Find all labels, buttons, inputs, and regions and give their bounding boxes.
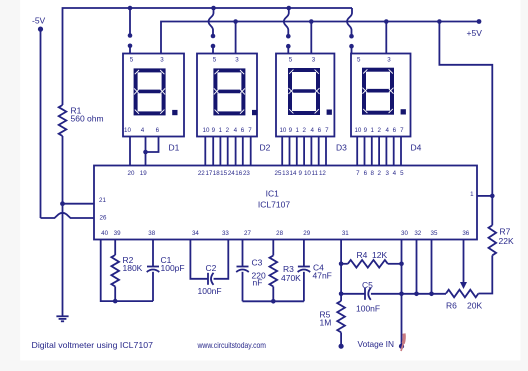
svg-text:7: 7 — [400, 127, 404, 134]
svg-text:9: 9 — [212, 127, 216, 134]
svg-text:D1: D1 — [169, 143, 180, 153]
svg-text:470K: 470K — [281, 273, 301, 283]
resistor R4 — [348, 260, 388, 268]
page margin right — [521, 0, 528, 361]
wire D3 pin4 to IC10 — [310, 137, 312, 166]
capacitor C3 plates — [237, 266, 249, 268]
wire D4 pin9 to IC6 — [364, 137, 366, 166]
wire: R4 left lead — [341, 263, 348, 265]
svg-text:6: 6 — [393, 127, 397, 134]
wire: D2 pin3 drop — [235, 22, 237, 54]
wire D2 pin4 to IC24 — [235, 137, 237, 166]
wire: D1 pin4 to IC19 — [145, 137, 147, 166]
svg-text:-5V: -5V — [32, 16, 46, 26]
node R4 left — [339, 262, 344, 267]
resistor R3 — [270, 256, 278, 287]
node C5 right — [399, 292, 404, 297]
svg-text:4: 4 — [385, 127, 389, 134]
svg-text:11: 11 — [312, 170, 319, 177]
svg-text:3: 3 — [387, 57, 391, 64]
svg-text:3: 3 — [235, 57, 239, 64]
svg-text:C2: C2 — [206, 263, 217, 273]
wire: C5 left lead — [341, 293, 365, 295]
node break dots D4 — [349, 34, 354, 39]
svg-text:5: 5 — [130, 57, 134, 64]
svg-text:8: 8 — [370, 170, 374, 177]
wire: R7 top lead — [491, 196, 493, 225]
Voltage IN red arrow — [403, 334, 404, 344]
svg-text:35: 35 — [431, 230, 438, 237]
svg-text:5: 5 — [357, 57, 361, 64]
svg-text:5: 5 — [213, 57, 217, 64]
wire: R3 bottom to rail2 — [272, 287, 274, 302]
wire D3 pin10 to IC25 — [281, 137, 283, 166]
capacitor C4 plates — [298, 266, 310, 268]
svg-text:Votage IN: Votage IN — [358, 339, 395, 349]
svg-text:13: 13 — [282, 170, 289, 177]
svg-text:32: 32 — [414, 230, 421, 237]
wire D4 pin6 to IC4 — [393, 137, 395, 166]
wire: pin31 down to R5 and junctions — [340, 240, 342, 301]
node -5V terminal — [38, 27, 43, 32]
svg-text:27: 27 — [244, 230, 251, 237]
svg-text:560 ohm: 560 ohm — [71, 114, 104, 124]
node bus1 D1 — [128, 6, 133, 11]
node bus2 D4 — [384, 19, 389, 24]
svg-text:9: 9 — [298, 170, 302, 177]
svg-text:26: 26 — [100, 215, 107, 222]
svg-text:18: 18 — [213, 170, 220, 177]
wire: pin30 down to Voltage IN — [401, 240, 403, 347]
svg-text:19: 19 — [140, 170, 147, 177]
svg-text:+5V: +5V — [467, 28, 483, 38]
node bus1 D2 — [211, 6, 216, 11]
wire: pin32 stub — [416, 240, 418, 294]
wire: pin26 to -5V line with hop over rail — [41, 213, 95, 218]
wire D3 pin9 to IC13 — [289, 137, 291, 166]
wire: rail3 — [402, 293, 447, 295]
svg-text:9: 9 — [364, 127, 368, 134]
node R3 bottom — [271, 299, 276, 304]
resistor R6 — [446, 290, 478, 298]
display D4 box — [351, 54, 411, 137]
wire D3 pin1 to IC14 — [296, 137, 298, 166]
wire: pin35 stub — [431, 240, 433, 294]
resistor R7 — [489, 225, 497, 255]
svg-text:10: 10 — [279, 127, 286, 134]
R6 wiper arrowhead — [460, 282, 467, 289]
node R4 right — [399, 262, 404, 267]
svg-text:D4: D4 — [411, 143, 422, 153]
node break dots D1 — [128, 33, 133, 38]
resistor R5 — [337, 301, 345, 333]
svg-text:R6: R6 — [446, 301, 457, 311]
svg-text:2: 2 — [377, 170, 381, 177]
node R2 bottom — [113, 299, 118, 304]
svg-text:1: 1 — [370, 127, 374, 134]
svg-text:Digital voltmeter using ICL710: Digital voltmeter using ICL7107 — [32, 340, 154, 350]
svg-text:3: 3 — [385, 170, 389, 177]
display D1 box — [123, 54, 184, 137]
node C5 left — [339, 292, 344, 297]
svg-text:15: 15 — [220, 170, 227, 177]
svg-text:2: 2 — [226, 127, 230, 134]
wire: D3 pin3 drop — [310, 22, 312, 54]
wire: pin36 stub to R6 wiper — [463, 240, 465, 283]
wire: +5V to pin1/R7 — [439, 22, 492, 196]
svg-text:1M: 1M — [320, 318, 332, 328]
svg-text:ICL7107: ICL7107 — [258, 200, 290, 210]
capacitor C2 plates — [207, 273, 209, 285]
wire: pin34 down, C2 horizontal, pin33 down — [190, 240, 208, 279]
node D1 pin4/6 — [143, 150, 148, 155]
wire D2 pin9 to IC17 — [212, 137, 214, 166]
wire: pin38 stub to C1 — [152, 240, 154, 267]
resistor R2 — [111, 255, 119, 287]
wire D3 pin7 to IC12 — [325, 137, 327, 166]
display D4 digit — [362, 69, 406, 114]
svg-text:IC1: IC1 — [266, 189, 280, 199]
svg-text:100nF: 100nF — [198, 286, 222, 296]
svg-text:R7: R7 — [500, 227, 511, 237]
svg-text:7: 7 — [356, 170, 360, 177]
svg-text:6: 6 — [156, 127, 160, 134]
svg-text:22: 22 — [198, 170, 205, 177]
svg-text:R4: R4 — [357, 250, 368, 260]
svg-text:3: 3 — [312, 57, 316, 64]
svg-text:4: 4 — [234, 127, 238, 134]
wire: C4 bottom to rail2 — [303, 272, 305, 302]
svg-text:22K: 22K — [499, 236, 514, 246]
svg-text:10: 10 — [304, 170, 311, 177]
wire D2 pin7 to IC23 — [250, 137, 252, 166]
node R5 terminal — [339, 344, 344, 349]
node Voltage IN terminal — [399, 344, 404, 349]
svg-text:1: 1 — [219, 127, 223, 134]
node bus2 D3 — [309, 19, 314, 24]
wire: R4 right lead — [388, 263, 402, 265]
svg-text:www.circuitstoday.com: www.circuitstoday.com — [197, 340, 266, 350]
svg-text:10: 10 — [124, 127, 131, 134]
display D1 digit — [134, 70, 178, 115]
wire: D4 pin5 drop with hop — [347, 8, 352, 36]
svg-text:6: 6 — [318, 127, 322, 134]
wire: D4 pin3 drop — [385, 22, 387, 54]
svg-text:4: 4 — [310, 127, 314, 134]
svg-text:D2: D2 — [260, 143, 271, 153]
svg-text:100nF: 100nF — [356, 304, 380, 314]
resistor R1 — [59, 105, 67, 136]
svg-text:38: 38 — [148, 230, 155, 237]
wire: C3 bottom to rail2 — [242, 272, 244, 302]
wire: R6 right to R7 bottom — [478, 255, 492, 293]
svg-text:9: 9 — [289, 127, 293, 134]
node pin1/R7 — [490, 194, 495, 199]
wire D3 pin6 to IC11 — [318, 137, 320, 166]
svg-text:34: 34 — [192, 230, 199, 237]
display D3 digit — [288, 70, 332, 115]
svg-text:29: 29 — [303, 230, 310, 237]
wire D2 pin2 to IC15 — [227, 137, 229, 166]
svg-text:2: 2 — [377, 127, 381, 134]
svg-text:4: 4 — [393, 170, 397, 177]
svg-text:24: 24 — [228, 170, 235, 177]
wire: pin39 stub to R2 top — [114, 240, 116, 256]
wire: pin28 stub to R3 — [272, 240, 274, 256]
display D3 box — [276, 54, 334, 137]
wire D4 pin2 to IC2 — [378, 137, 380, 166]
wire D4 pin10 to IC7 — [356, 137, 358, 166]
node pin35 rail — [429, 292, 434, 297]
wire: D1 pin5 drop — [129, 8, 131, 36]
svg-text:6: 6 — [364, 170, 368, 177]
wire: D3 pin5 drop with hop — [284, 8, 289, 36]
ground rail left: below R1 to pin21 junction and ground — [62, 136, 64, 316]
svg-text:C5: C5 — [362, 280, 373, 290]
svg-text:33: 33 — [222, 230, 229, 237]
wire D4 pin7 to IC5 — [400, 137, 402, 166]
wire D2 pin1 to IC18 — [219, 137, 221, 166]
wire: R2 bottom to rail1 — [114, 287, 116, 302]
svg-text:5: 5 — [400, 170, 404, 177]
wire: pin27 stub to C3 — [242, 240, 244, 267]
wire: pin40 down and rail1 — [101, 240, 153, 302]
svg-text:4: 4 — [141, 127, 145, 134]
capacitor C5 plates — [364, 288, 366, 300]
svg-text:D3: D3 — [336, 143, 347, 153]
wire: pin29 stub to C4 — [303, 240, 305, 267]
page margin bottom — [0, 361, 528, 371]
svg-text:7: 7 — [248, 127, 252, 134]
node break dots D3 — [286, 34, 291, 39]
svg-text:16: 16 — [235, 170, 242, 177]
svg-text:25: 25 — [275, 170, 282, 177]
wire: pin1 stub — [477, 195, 492, 197]
svg-text:20K: 20K — [467, 301, 482, 311]
wire D4 pin1 to IC8 — [371, 137, 373, 166]
svg-text:10: 10 — [203, 127, 210, 134]
svg-text:7: 7 — [325, 127, 329, 134]
svg-text:31: 31 — [342, 230, 349, 237]
svg-text:47nF: 47nF — [313, 271, 332, 281]
page margin left — [0, 0, 20, 361]
svg-text:23: 23 — [243, 170, 250, 177]
wire D2 pin10 to IC22 — [204, 137, 206, 166]
wire: rail2 — [243, 300, 304, 302]
svg-text:3: 3 — [160, 57, 164, 64]
svg-text:1: 1 — [470, 191, 474, 198]
display D2 digit — [214, 70, 258, 115]
svg-text:180K: 180K — [123, 263, 143, 273]
node bus1 D3 — [287, 6, 292, 11]
capacitor C1 plates — [147, 266, 159, 268]
display D2 box — [197, 54, 257, 137]
node pin32 rail — [414, 292, 419, 297]
wire: +5V bus — [161, 22, 479, 54]
svg-text:36: 36 — [462, 230, 469, 237]
svg-text:2: 2 — [302, 127, 306, 134]
node break dots D2 — [211, 34, 216, 39]
wire: R5 bottom to terminal — [340, 332, 342, 346]
wire: -5V line — [40, 29, 42, 218]
svg-text:6: 6 — [241, 127, 245, 134]
wire: C5 right lead — [371, 293, 402, 295]
svg-text:1: 1 — [295, 127, 299, 134]
wire: C1 bottom to rail1 — [152, 272, 154, 301]
svg-text:100pF: 100pF — [161, 263, 185, 273]
svg-text:10: 10 — [354, 127, 361, 134]
svg-text:14: 14 — [290, 170, 297, 177]
node +5V terminal — [477, 19, 482, 24]
ground symbol — [56, 315, 68, 317]
node bus2 D2 — [233, 19, 238, 24]
wire D3 pin2 to IC9 — [303, 137, 305, 166]
svg-text:20: 20 — [128, 170, 135, 177]
wire D4 pin4 to IC3 — [385, 137, 387, 166]
node bus2 R7 feed — [437, 19, 442, 24]
IC1 box — [94, 166, 477, 240]
wire: D2 pin5 drop with hop — [209, 8, 214, 36]
svg-text:nF: nF — [253, 278, 263, 288]
svg-text:12K: 12K — [372, 250, 387, 260]
wire D2 pin6 to IC16 — [242, 137, 244, 166]
wire: ground bus top — [63, 8, 353, 105]
svg-text:39: 39 — [114, 230, 121, 237]
svg-text:21: 21 — [99, 197, 106, 204]
svg-text:40: 40 — [101, 230, 108, 237]
svg-text:12: 12 — [319, 170, 326, 177]
wire: D1 pin6 join — [146, 137, 159, 153]
node pin21 junction — [60, 201, 65, 206]
wire: pin21 to rail — [63, 203, 95, 205]
wire: D1 pin10 to IC20 — [129, 137, 131, 166]
svg-text:28: 28 — [276, 230, 283, 237]
svg-text:5: 5 — [289, 57, 293, 64]
svg-text:C3: C3 — [252, 258, 263, 268]
svg-text:30: 30 — [401, 230, 408, 237]
